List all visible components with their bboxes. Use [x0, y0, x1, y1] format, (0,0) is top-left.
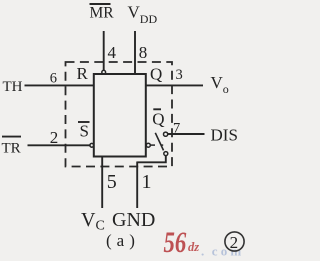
pin 4 inversion bubble — [102, 70, 106, 74]
circled 2 marker — [225, 232, 244, 251]
TR wire (pin 2) — [28, 144, 90, 146]
svg-text:(a): (a) — [106, 231, 140, 250]
svg-text:8: 8 — [139, 43, 148, 62]
pin 4 wire — [103, 31, 105, 70]
pin 5 wire — [101, 157, 103, 209]
svg-text:5: 5 — [107, 171, 117, 193]
S input inversion bubble — [90, 143, 94, 147]
S overline — [78, 121, 90, 123]
svg-text:TH: TH — [3, 79, 23, 95]
pin 8 wire — [134, 31, 136, 74]
svg-text:S: S — [80, 122, 89, 141]
IC body box — [94, 74, 146, 157]
svg-text:MR: MR — [90, 4, 115, 21]
discharge switch left contact bubble — [146, 143, 150, 147]
TH wire (pin 6) — [25, 84, 94, 86]
svg-text:3: 3 — [176, 67, 183, 83]
discharge switch dash mark — [161, 144, 164, 146]
discharge switch bottom contact bubble — [164, 152, 168, 156]
svg-text:4: 4 — [108, 43, 117, 62]
svg-text:TR: TR — [2, 140, 21, 156]
dashed boundary box — [66, 62, 173, 167]
svg-text:dz: dz — [188, 240, 199, 254]
pin 3 wire — [146, 84, 203, 86]
svg-text:GND: GND — [112, 209, 155, 231]
svg-text:Q: Q — [152, 110, 164, 129]
discharge switch contact stub — [151, 144, 156, 146]
svg-text:Q: Q — [150, 65, 162, 84]
svg-text:R: R — [77, 64, 89, 83]
Qbar overline — [153, 108, 161, 110]
svg-text:2: 2 — [230, 233, 239, 252]
svg-text:1: 1 — [142, 171, 152, 193]
svg-text:6: 6 — [50, 70, 57, 86]
wire from bottom contact down — [137, 156, 166, 163]
MR overline — [90, 3, 111, 5]
TR overline — [2, 136, 21, 138]
pin 7 wire — [168, 133, 205, 135]
svg-text:2: 2 — [50, 128, 59, 147]
discharge switch arm — [155, 133, 163, 151]
svg-text:56: 56 — [164, 225, 187, 259]
svg-text:DIS: DIS — [211, 126, 238, 145]
pin 1 wire — [136, 162, 138, 209]
discharge switch common bubble (pin 7 node) — [164, 132, 168, 136]
